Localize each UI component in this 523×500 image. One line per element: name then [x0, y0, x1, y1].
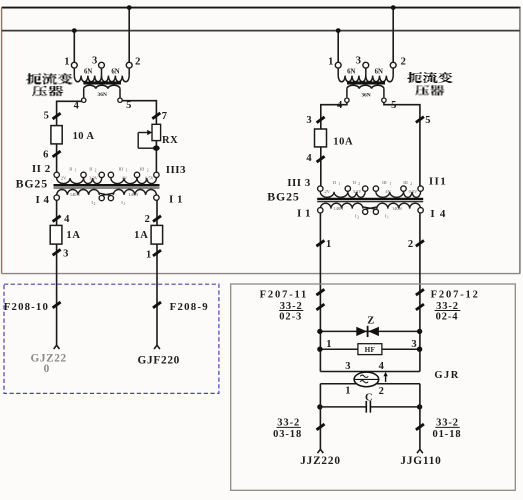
- label GJR: [434, 370, 460, 381]
- pin 4 label: [74, 101, 80, 112]
- junction dot right of C wire: [417, 404, 422, 409]
- svg-text:JJG110: JJG110: [400, 455, 441, 467]
- svg-text:02-3: 02-3: [279, 311, 302, 322]
- svg-text:2: 2: [358, 182, 360, 186]
- wire for C element: [320, 406, 420, 408]
- pin 2 label (T2): [401, 56, 406, 67]
- label I 4 (right circuit): [430, 208, 446, 220]
- svg-text:Z: Z: [367, 315, 374, 326]
- GJR top connection wire: [320, 371, 420, 373]
- pin 5 label: [126, 100, 131, 111]
- junction dot left of HF wire: [317, 347, 322, 352]
- pin 1 label (GJR): [345, 385, 350, 396]
- svg-text:BG25: BG25: [267, 189, 299, 203]
- connector slash 5: [53, 113, 61, 119]
- svg-text:3: 3: [63, 249, 68, 260]
- svg-text:4: 4: [64, 214, 70, 225]
- BG25-L bottom winding right half: [113, 189, 156, 194]
- connector slash 3 (T2 branch): [317, 117, 325, 123]
- BG25-L voltage label 4V: [122, 175, 128, 180]
- pin 1 label (HF): [326, 339, 331, 350]
- label 10 A: [73, 131, 95, 142]
- svg-text:II1: II1: [429, 176, 447, 188]
- label F208-10: [4, 301, 49, 313]
- BG25-L voltage label 3.3V: [89, 175, 98, 180]
- BG25-R voltage label 4V: [385, 189, 391, 194]
- plug arrow to GJF220: [154, 345, 160, 349]
- svg-text:1: 1: [126, 168, 128, 172]
- label 0 (wrap of GJZ220): [44, 363, 50, 375]
- svg-text:36N: 36N: [361, 93, 370, 99]
- GJR bottom connection wire: [320, 383, 420, 385]
- svg-text:F208-10: F208-10: [4, 301, 49, 313]
- T1 primary winding: [74, 68, 129, 82]
- svg-text:4: 4: [379, 361, 385, 372]
- svg-text:I 1: I 1: [169, 194, 183, 206]
- relay GJR (AC relay): [354, 372, 379, 387]
- label 3 (T2 branch): [306, 115, 311, 126]
- label 1A (right): [134, 230, 148, 241]
- BG25-L winding label 140N left: [70, 192, 81, 197]
- svg-text:2: 2: [401, 56, 406, 67]
- BG25-R top winding: [320, 191, 420, 197]
- svg-text:1: 1: [123, 202, 125, 206]
- BG25-R tap label II1: [333, 180, 340, 186]
- label 2: [145, 214, 150, 225]
- svg-text:1: 1: [326, 239, 331, 250]
- label 2 (relay branch): [408, 239, 413, 250]
- label 4: [64, 214, 70, 225]
- label 6: [43, 149, 48, 160]
- svg-text:6N: 6N: [347, 69, 355, 76]
- label C: [365, 393, 373, 404]
- svg-text:1: 1: [326, 339, 331, 350]
- BG25-L crossover wires: [99, 193, 113, 195]
- svg-text:4V: 4V: [385, 189, 391, 194]
- label F207-11: [260, 290, 309, 301]
- label BG25 (right): [267, 189, 299, 203]
- connector slash 33-2/03-18: [317, 424, 325, 430]
- label 01-18: [433, 429, 462, 440]
- label JJG110: [400, 455, 441, 467]
- BG25-R tap label III2: [403, 180, 412, 186]
- connector slash 1 (relay branch): [316, 240, 324, 246]
- filter HF: [358, 344, 382, 355]
- label JJZ220: [300, 455, 341, 467]
- svg-text:2: 2: [94, 202, 96, 206]
- plug arrow to JJG110: [417, 449, 423, 453]
- svg-text:140N: 140N: [128, 192, 139, 197]
- connector slash 6: [53, 151, 61, 157]
- svg-text:3.3V: 3.3V: [353, 189, 362, 194]
- T2 secondary winding 36N: [347, 85, 384, 97]
- svg-text:GJF220: GJF220: [138, 355, 180, 367]
- left relay wire lower segment: [319, 384, 321, 450]
- left relay wire upper segment: [319, 213, 321, 372]
- winding label 36N (left): [98, 92, 107, 98]
- svg-text:II: II: [353, 180, 357, 185]
- junction dot right of HF wire: [417, 347, 422, 352]
- label I 1 (left circuit): [169, 194, 183, 206]
- svg-text:I 4: I 4: [35, 194, 49, 206]
- wire from second bus to left transformer terminal 1: [73, 31, 75, 63]
- T2 primary winding: [338, 68, 393, 82]
- connector slash F207-11: [316, 289, 324, 295]
- winding label 6N left: [84, 69, 92, 76]
- junction on top bus (right): [391, 5, 396, 10]
- svg-text:2: 2: [408, 239, 413, 250]
- label III 3 (right circuit): [287, 177, 311, 189]
- BG25-L tap label I1: [121, 200, 125, 206]
- svg-text:140N: 140N: [334, 206, 345, 211]
- BG25-L tap label II2: [89, 166, 96, 172]
- svg-text:III: III: [403, 180, 408, 185]
- winding label 6N right (T2): [375, 69, 383, 76]
- svg-text:140N: 140N: [70, 192, 81, 197]
- label III3 (left circuit): [166, 164, 186, 176]
- svg-text:1A: 1A: [66, 230, 80, 241]
- frame right border: [519, 8, 521, 274]
- label Z: [367, 315, 374, 326]
- terminal 2 of choke transformer T1: [126, 62, 132, 68]
- pin 5 label (T2): [391, 100, 396, 111]
- svg-text:5: 5: [126, 100, 131, 111]
- winding label 6N right: [111, 69, 119, 76]
- BG25-R voltage label 3.3V: [353, 189, 362, 194]
- junction on top bus: [127, 5, 132, 10]
- wire from top bus to left transformer terminal 2: [128, 8, 130, 63]
- svg-text:0.5V: 0.5V: [409, 189, 418, 194]
- svg-text:5: 5: [44, 110, 49, 121]
- BG25-L bottom terminals: [54, 195, 159, 201]
- terminal 3 of choke transformer T2: [363, 62, 369, 68]
- label GJF220: [138, 355, 180, 367]
- svg-text:5: 5: [425, 115, 430, 126]
- BG25-R voltage label 2V: [325, 189, 331, 194]
- T1 secondary winding 36N: [84, 85, 120, 98]
- terminal 5 of T2: [382, 98, 386, 102]
- svg-text:6N: 6N: [84, 69, 92, 76]
- plug arrow to GJZ220: [54, 345, 60, 349]
- svg-text:3: 3: [345, 361, 350, 372]
- svg-text:RX: RX: [162, 135, 178, 146]
- outer frame of upper schematic section (top bus line): [2, 7, 521, 9]
- arrow beside GJR: [383, 372, 387, 382]
- svg-text:1: 1: [387, 216, 389, 220]
- junction on second bus (right): [336, 28, 341, 33]
- svg-text:7: 7: [162, 111, 167, 122]
- svg-text:F207-11: F207-11: [260, 290, 309, 301]
- connector slash F208-10: [53, 302, 61, 308]
- connector slash 3: [53, 249, 61, 255]
- wire from second bus to right transformer terminal 1: [337, 31, 339, 63]
- pin 3 label (T2): [356, 56, 361, 67]
- label 5: [44, 110, 49, 121]
- right relay wire lower segment: [419, 384, 421, 450]
- label II 2: [32, 163, 51, 175]
- svg-text:JJZ220: JJZ220: [300, 455, 341, 467]
- label I 1 (right circuit): [297, 207, 311, 219]
- connector slash 33-2/02-4: [416, 304, 424, 310]
- svg-text:4: 4: [74, 101, 80, 112]
- label 4 (T2 branch): [306, 153, 312, 164]
- connector slash 2 (relay branch): [416, 240, 424, 246]
- svg-text:2V: 2V: [61, 175, 67, 180]
- svg-text:4: 4: [306, 153, 312, 164]
- winding label 6N left (T2): [347, 69, 355, 76]
- pin 3 label (GJR): [345, 361, 350, 372]
- svg-text:1A: 1A: [134, 230, 148, 241]
- svg-text:2: 2: [147, 168, 149, 172]
- svg-text:II: II: [69, 166, 73, 171]
- svg-text:0: 0: [44, 363, 50, 375]
- wire from T1 terminal 4 to left branch: [57, 101, 82, 172]
- BG25-R winding label 140N right: [392, 206, 403, 211]
- pin 1 label (T2): [328, 56, 333, 67]
- BG25-R bottom terminals: [318, 208, 424, 215]
- svg-text:01-18: 01-18: [433, 429, 462, 440]
- T2 core: [347, 82, 385, 85]
- label F207-12: [431, 290, 480, 301]
- svg-text:2: 2: [145, 214, 150, 225]
- svg-text:6N: 6N: [375, 69, 383, 76]
- connector slash F208-9: [153, 302, 161, 308]
- BG25-R tap label I1: [385, 214, 389, 220]
- svg-text:2: 2: [357, 216, 359, 220]
- connector slash F207-12: [416, 289, 424, 295]
- connector slash 33-2/02-3: [316, 304, 324, 310]
- dashed relay box (GJZ220/GJF220): [4, 284, 219, 393]
- BG25-R voltage label 0.5V: [409, 189, 418, 194]
- wire from T2 terminal 5 to right branch: [384, 102, 420, 186]
- solid relay box (GJR): [231, 284, 516, 490]
- label 33-2 (01-18): [435, 418, 459, 429]
- svg-text:10 A: 10 A: [73, 131, 95, 142]
- svg-text:1: 1: [64, 56, 69, 67]
- label GJZ22: [30, 353, 66, 365]
- svg-text:GJR: GJR: [434, 370, 460, 381]
- BG25-R top terminals: [318, 186, 424, 191]
- BG25-R bottom winding right half: [377, 203, 421, 208]
- BG25-L voltage label 0.5V: [145, 175, 154, 180]
- svg-text:10A: 10A: [333, 136, 353, 147]
- BG25-L tap label II1: [69, 166, 76, 172]
- BG25-R crossover wires: [363, 207, 377, 209]
- label 33-2 (03-18): [277, 418, 301, 429]
- second bus line: [2, 30, 520, 32]
- BG25-L core: [54, 185, 160, 188]
- terminal 1 of choke transformer T2: [335, 62, 341, 68]
- svg-text:140N: 140N: [392, 206, 403, 211]
- svg-text:II: II: [89, 166, 93, 171]
- label 1 (relay branch): [326, 239, 331, 250]
- frame bottom border: [2, 273, 521, 275]
- label 5 (T2 branch): [425, 115, 430, 126]
- wire from T1 terminal 5 to RX branch: [122, 101, 156, 172]
- winding label 36N (right): [361, 93, 370, 99]
- svg-text:III: III: [382, 180, 387, 185]
- svg-text:6N: 6N: [111, 69, 119, 76]
- fuse 10A (right circuit): [315, 129, 327, 147]
- svg-text:2V: 2V: [325, 189, 331, 194]
- left lower wire to GJZ220: [56, 200, 58, 345]
- BG25-L bottom winding left half: [57, 189, 100, 194]
- wire from top bus to right transformer terminal 2: [392, 8, 394, 63]
- svg-text:02-4: 02-4: [436, 311, 459, 322]
- pin 4 label (T2): [337, 100, 343, 111]
- label 1: [146, 249, 151, 260]
- pin 2 label (GJR): [379, 386, 384, 397]
- svg-text:II: II: [333, 180, 337, 185]
- svg-text:2: 2: [410, 182, 412, 186]
- svg-text:03-18: 03-18: [273, 429, 302, 440]
- wire for Z element: [320, 330, 420, 332]
- pin 3 label (HF): [411, 339, 416, 350]
- terminal 2 of choke transformer T2: [390, 62, 396, 68]
- pin 3 label: [92, 56, 97, 67]
- label 10A: [333, 136, 353, 147]
- svg-text:BG25: BG25: [16, 177, 48, 191]
- label 33-2 (02-4): [435, 301, 461, 312]
- fuse 1A (left): [50, 225, 62, 244]
- svg-text:4V: 4V: [122, 175, 128, 180]
- BG25-R winding label 140N left: [334, 206, 345, 211]
- terminal 4 of T1: [82, 98, 86, 102]
- plug arrow to JJZ220: [318, 449, 324, 453]
- junction dot below RX: [153, 145, 160, 150]
- wire from T2 terminal 4 to left branch: [321, 102, 347, 186]
- svg-text:6: 6: [43, 149, 48, 160]
- label BG25 (left): [16, 177, 48, 191]
- label I 4: [35, 194, 49, 206]
- svg-text:I 4: I 4: [430, 208, 446, 220]
- right relay wire upper segment: [419, 213, 421, 372]
- junction dot left of C wire: [317, 404, 322, 409]
- label F208-9: [170, 301, 209, 313]
- pin 4 label (GJR): [379, 361, 385, 372]
- junction on second bus: [72, 28, 77, 33]
- BG25-R tap label I2: [355, 214, 359, 220]
- capacitor C: [366, 401, 370, 413]
- svg-text:3: 3: [306, 115, 311, 126]
- svg-text:1: 1: [338, 182, 340, 186]
- svg-text:1: 1: [328, 56, 333, 67]
- svg-text:1: 1: [345, 385, 350, 396]
- connector slash 5 (T2 branch): [416, 117, 424, 123]
- BG25-L winding label 140N right: [128, 192, 139, 197]
- T1 core: [83, 82, 121, 85]
- label 扼流变 (choke transformer, left): [26, 74, 72, 84]
- junction dot right of Z wire: [417, 329, 422, 334]
- BG25-R tap label II2: [353, 180, 360, 186]
- svg-text:3: 3: [411, 339, 416, 350]
- wire for HF element: [320, 348, 420, 350]
- fuse 1A (right): [151, 225, 163, 244]
- terminal 1 of choke transformer T1: [71, 62, 77, 68]
- RX wiper arrow: [138, 130, 154, 148]
- label 压器 (right): [415, 86, 444, 95]
- pin 2 label: [135, 56, 140, 67]
- connector slash 1: [153, 250, 161, 256]
- BG25-R bottom winding left half: [320, 203, 363, 208]
- BG25-L top terminals: [54, 172, 159, 177]
- label 扼流变 (choke transformer, right): [407, 73, 452, 83]
- svg-text:36N: 36N: [98, 92, 107, 98]
- BG25-L tap label I2: [91, 200, 95, 206]
- svg-text:III3: III3: [166, 164, 186, 176]
- label 02-4: [436, 311, 459, 322]
- svg-text:3: 3: [356, 56, 361, 67]
- svg-text:HF: HF: [365, 346, 376, 354]
- connector slash 4: [53, 216, 61, 222]
- svg-text:1: 1: [146, 249, 151, 260]
- bidirectional diode Z: [356, 326, 379, 337]
- label RX: [162, 135, 178, 146]
- pin 1 label: [64, 56, 69, 67]
- svg-text:1: 1: [389, 182, 391, 186]
- svg-text:III: III: [119, 166, 124, 171]
- svg-text:III: III: [140, 166, 145, 171]
- connector slash 33-2/01-18: [416, 424, 424, 430]
- terminal 4 of T2: [345, 98, 349, 102]
- adjustable resistor RX: [152, 124, 161, 140]
- svg-text:2: 2: [135, 56, 140, 67]
- svg-text:F208-9: F208-9: [170, 301, 209, 313]
- svg-text:2: 2: [95, 168, 97, 172]
- svg-text:3: 3: [92, 56, 97, 67]
- junction dot left of Z wire: [317, 329, 322, 334]
- label 33-2 (02-3): [279, 301, 303, 312]
- label 7: [162, 111, 167, 122]
- label 压器 (left): [32, 87, 63, 96]
- svg-text:III 3: III 3: [287, 177, 311, 189]
- BG25-L tap label III2: [140, 166, 149, 172]
- fuse 10A (left circuit): [51, 126, 62, 144]
- BG25-L top winding: [57, 178, 157, 184]
- svg-text:1: 1: [75, 168, 77, 172]
- terminal 5 of T1: [118, 98, 122, 102]
- BG25-L tap label III1: [119, 166, 128, 172]
- BG25-L voltage label 2V: [61, 175, 67, 180]
- svg-text:II 2: II 2: [32, 163, 51, 175]
- label 03-18: [273, 429, 302, 440]
- connector slash 7: [152, 113, 160, 119]
- svg-text:0.5V: 0.5V: [145, 175, 154, 180]
- label 1A (left): [66, 230, 80, 241]
- svg-text:F207-12: F207-12: [431, 290, 480, 301]
- frame left border: [1, 8, 3, 274]
- terminal 3 of choke transformer T1: [99, 62, 105, 68]
- BG25-R tap label III1: [382, 180, 391, 186]
- svg-text:I 1: I 1: [297, 207, 311, 219]
- connector slash 2: [153, 216, 161, 222]
- svg-text:2: 2: [379, 386, 384, 397]
- BG25-R core: [317, 199, 423, 202]
- label 02-3: [279, 311, 302, 322]
- connector slash 4 (T2 branch): [317, 156, 325, 162]
- label II1 (right circuit): [429, 176, 447, 188]
- svg-text:3.3V: 3.3V: [89, 175, 98, 180]
- label 3: [63, 249, 68, 260]
- right lower wire to GJF220: [156, 200, 158, 345]
